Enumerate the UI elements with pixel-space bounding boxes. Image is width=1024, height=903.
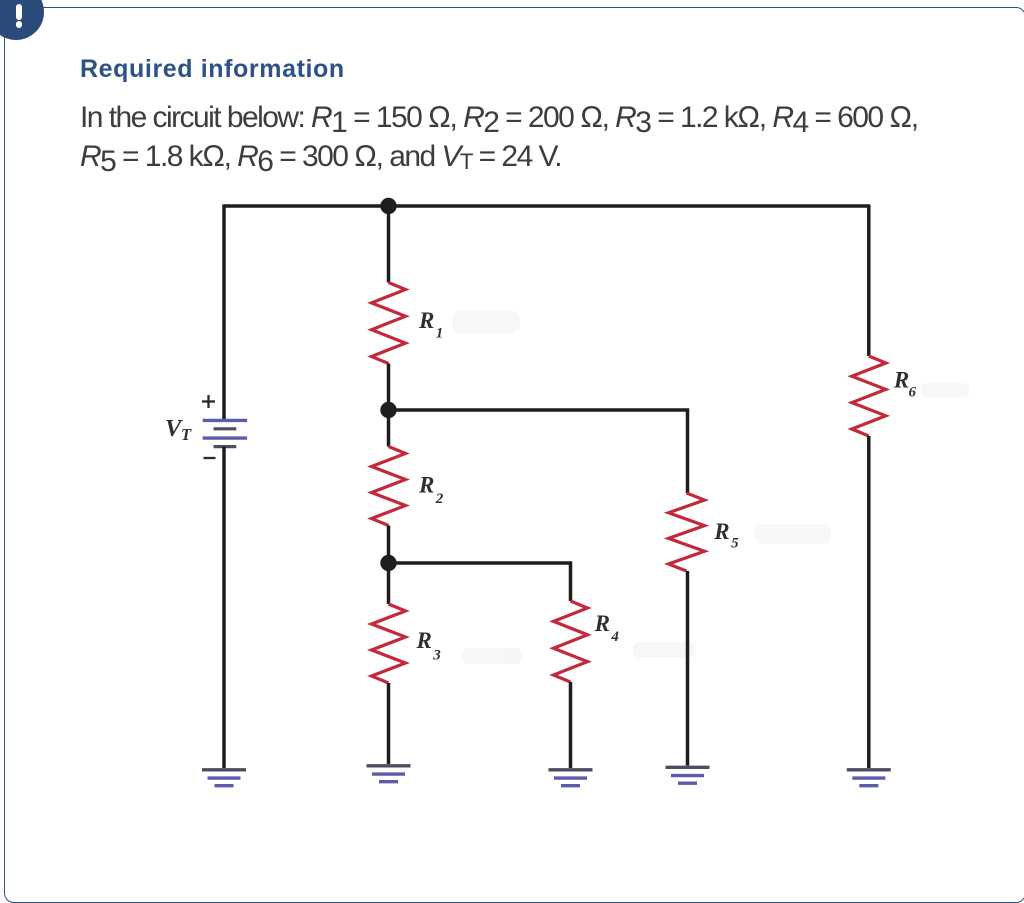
battery VT plate 1 long <box>203 419 247 422</box>
paragraph line 1 <box>80 101 918 135</box>
resistor R6 <box>852 356 886 436</box>
svg-text:R: R <box>418 308 434 333</box>
wire: R6 branch top <box>867 204 871 356</box>
node A junction dot top <box>380 198 396 214</box>
resistor R3 <box>372 604 406 683</box>
ground for R5 <box>666 767 710 783</box>
node B junction dot <box>380 402 396 418</box>
resistor R4 <box>554 601 588 682</box>
faint artifact smudges <box>452 311 969 664</box>
node C junction dot <box>380 555 396 571</box>
ground for R3 <box>367 766 411 782</box>
svg-text:4: 4 <box>610 629 619 645</box>
resistor R5 <box>669 493 705 571</box>
wire: R1 to node B <box>387 364 391 411</box>
battery VT plate 2 short <box>214 427 237 430</box>
wire: node B to R2 <box>387 410 391 447</box>
svg-text:R: R <box>416 628 432 653</box>
wire: R3 to ground <box>387 683 391 764</box>
svg-text:6: 6 <box>909 384 917 400</box>
heading <box>80 55 345 84</box>
battery VT plate 3 long <box>203 436 247 439</box>
wire: top rail from battery to R6 branch <box>224 204 869 208</box>
ground for R6 <box>847 770 891 786</box>
svg-text:R: R <box>418 472 434 497</box>
svg-text:1: 1 <box>436 325 444 341</box>
ground for battery <box>202 770 246 786</box>
resistor R1 <box>372 283 406 364</box>
svg-text:5: 5 <box>731 536 739 552</box>
wire: node B to R5 branch <box>389 410 688 493</box>
wire: R5 to ground <box>686 571 690 766</box>
wire: battery branch bottom <box>222 447 226 769</box>
svg-text:R: R <box>893 367 909 392</box>
wire: node C to R3 <box>387 563 391 604</box>
wire: R2 to node C <box>387 526 391 564</box>
plus sign <box>202 395 215 408</box>
wire: R6 to ground <box>867 436 871 768</box>
svg-text:3: 3 <box>432 648 441 664</box>
svg-text:2: 2 <box>435 491 444 507</box>
resistor R2 <box>372 447 406 526</box>
wire: battery branch top <box>222 204 226 420</box>
svg-text:R: R <box>713 519 729 544</box>
wire: node C to R4 branch <box>389 563 571 601</box>
wire: R1 branch upper <box>387 206 391 283</box>
minus sign <box>204 457 216 459</box>
svg-text:T: T <box>181 425 192 444</box>
ground for R4 <box>549 770 593 786</box>
battery VT plate 4 short <box>214 445 237 448</box>
svg-text:R: R <box>594 611 610 636</box>
wire: R4 to ground <box>569 682 573 768</box>
alert badge circle with exclamation <box>0 0 44 40</box>
paragraph line 2 <box>80 140 561 174</box>
